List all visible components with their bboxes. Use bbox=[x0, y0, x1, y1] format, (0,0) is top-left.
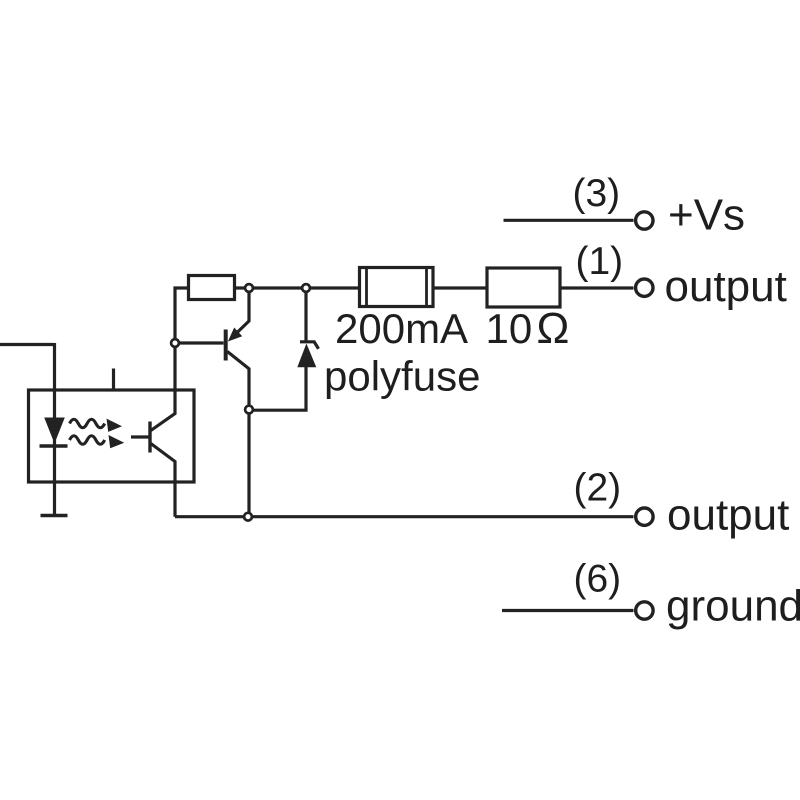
transistor Q2 collector bbox=[227, 352, 249, 410]
ground bbox=[41, 514, 68, 518]
wire LED anode/cathode vertical bbox=[53, 343, 56, 515]
LED D1 cathode bar bbox=[40, 444, 68, 448]
node B1 junction bbox=[245, 284, 253, 292]
wire polyfuse to R2 bbox=[433, 286, 487, 289]
transistor Q2 emitter lead bbox=[236, 288, 249, 334]
svg-text:(3): (3) bbox=[573, 172, 621, 215]
wire node A up to resistor bbox=[175, 288, 189, 343]
zener diode D2 cathode bar bbox=[300, 342, 319, 349]
svg-text:output: output bbox=[665, 262, 787, 311]
transistor Q1 emitter bbox=[151, 444, 175, 517]
svg-text:ground: ground bbox=[666, 582, 800, 631]
wire input lead left bbox=[0, 343, 55, 346]
node D junction bbox=[244, 513, 252, 521]
wire node C down to output rail bbox=[247, 410, 250, 517]
LED D1 triangle bbox=[44, 418, 65, 444]
polyfuse F1 end line left bbox=[365, 268, 368, 307]
svg-text:polyfuse: polyfuse bbox=[324, 353, 480, 400]
wire zener branch top bbox=[304, 288, 307, 341]
polyfuse F1 body bbox=[360, 268, 434, 307]
terminal 1 circle bbox=[636, 279, 653, 296]
transistor Q1 collector bbox=[151, 343, 175, 431]
pin 1 tick on optocoupler bbox=[112, 369, 115, 390]
resistor R2 10 ohm bbox=[487, 268, 560, 307]
svg-text:Ω: Ω bbox=[537, 304, 570, 353]
svg-text:+Vs: +Vs bbox=[668, 191, 745, 240]
wire zener bottom to node C bbox=[249, 366, 306, 410]
wire output 2 rail bbox=[175, 515, 634, 518]
terminal 3 circle bbox=[636, 212, 653, 229]
svg-text:(1): (1) bbox=[576, 240, 624, 283]
wire terminal 6 lead bbox=[502, 609, 634, 612]
wire node A to Q2 base bbox=[175, 341, 224, 344]
node A junction bbox=[171, 339, 179, 347]
svg-text:output: output bbox=[667, 491, 789, 540]
node B2 junction bbox=[302, 284, 310, 292]
transistor Q2 emitter arrowhead bbox=[228, 328, 242, 342]
light arrow upper bbox=[70, 419, 123, 432]
svg-text:(2): (2) bbox=[574, 467, 622, 510]
zener diode D2 triangle bbox=[297, 344, 316, 368]
node C junction bbox=[245, 406, 253, 414]
transistor Q2 base bar bbox=[224, 330, 228, 361]
transistor Q1 base lead bbox=[131, 435, 150, 438]
svg-text:10: 10 bbox=[486, 305, 533, 352]
resistor R1 bbox=[189, 276, 235, 300]
terminal 2 circle bbox=[636, 508, 653, 525]
svg-text:200mA: 200mA bbox=[335, 305, 468, 352]
wire top rail R1 to polyfuse bbox=[235, 286, 360, 289]
polyfuse F1 end line right bbox=[425, 268, 428, 307]
svg-text:(6): (6) bbox=[574, 558, 622, 601]
wire R2 to terminal 1 bbox=[560, 286, 634, 289]
terminal 6 circle bbox=[636, 602, 653, 619]
light arrow lower bbox=[70, 435, 125, 448]
transistor Q1 phototransistor base bar bbox=[148, 422, 151, 453]
op-amp U1 optocoupler box bbox=[29, 390, 195, 482]
wire terminal 3 lead bbox=[504, 219, 634, 222]
